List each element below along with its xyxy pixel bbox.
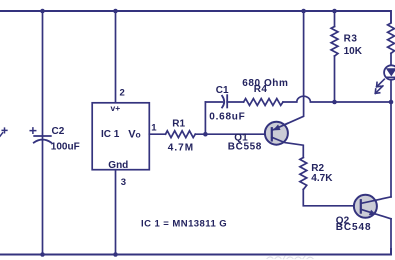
watermark fragment bottom	[267, 256, 313, 259]
svg-text:BC548: BC548	[336, 222, 372, 233]
transistor Q2 BC548	[354, 195, 391, 219]
svg-text:10K: 10K	[344, 46, 363, 57]
node LED column junction	[389, 100, 394, 105]
svg-text:BC558: BC558	[228, 142, 262, 153]
wire R5 to LED	[390, 53, 392, 65]
transistor Q1 BC558	[265, 122, 303, 158]
wire IC pin 3 column	[115, 170, 117, 255]
svg-text:v+: v+	[111, 103, 121, 113]
svg-text:R1: R1	[172, 118, 185, 129]
node R3 top junction	[332, 9, 337, 14]
resistor R3	[331, 27, 338, 57]
svg-text:R3: R3	[344, 34, 358, 45]
wire IC pin 1 to R1	[149, 133, 165, 135]
node pin3 bottom junction	[113, 252, 118, 257]
node C2 top junction	[40, 9, 45, 14]
svg-text:100uF: 100uF	[51, 142, 80, 153]
svg-text:IC 1 = MN13811 G: IC 1 = MN13811 G	[141, 219, 227, 230]
resistor R2	[300, 158, 307, 190]
svg-text:4.7M: 4.7M	[168, 142, 194, 153]
svg-text:C2: C2	[52, 126, 65, 137]
wire bottom ground rail	[0, 249, 391, 255]
resistor R1	[166, 131, 196, 138]
wire Q2 collector to LED column	[390, 102, 392, 197]
battery + fragment at left edge	[0, 128, 7, 136]
op-amp U1 IC1 box	[92, 103, 149, 170]
wire R4 to R3 bottom with hop over emitter column	[283, 96, 391, 102]
wire IC pin 2 column	[115, 11, 117, 103]
svg-text:4.7K: 4.7K	[311, 173, 333, 184]
resistor R5 top right	[388, 23, 395, 53]
svg-text:1: 1	[151, 123, 157, 134]
node R3 bottom junction	[332, 100, 337, 105]
svg-text:R4: R4	[254, 84, 268, 95]
node C2 bottom junction	[40, 252, 45, 257]
node pin2 top junction	[113, 9, 118, 14]
wire top V+ rail	[0, 11, 391, 22]
LED D1	[375, 65, 395, 93]
svg-text:C1: C1	[216, 85, 229, 96]
wire R1 to Q1 base	[195, 133, 271, 135]
wire riser junction to C1	[204, 102, 206, 134]
wire C2 column	[42, 11, 44, 255]
svg-text:IC 1: IC 1	[101, 129, 120, 140]
wire Q1 emitter column	[272, 11, 304, 130]
node junction R1/C1/Q1	[203, 132, 208, 137]
svg-text:0.68uF: 0.68uF	[209, 112, 245, 123]
svg-text:Gnd: Gnd	[108, 160, 128, 171]
wire Q2 emitter to ground rail	[390, 219, 392, 255]
svg-text:2: 2	[120, 88, 125, 99]
wire R3 bottom	[334, 56, 336, 102]
capacitor C2	[30, 128, 51, 143]
wire R3 column top	[334, 11, 336, 27]
svg-text:3: 3	[121, 177, 126, 188]
wire R2 to Q2 base	[303, 190, 361, 206]
node emitter column top junction	[301, 9, 306, 14]
resistor R4	[244, 99, 283, 106]
svg-text:Vo: Vo	[128, 129, 141, 141]
capacitor C1	[205, 95, 243, 107]
wire LED to junction	[390, 80, 392, 102]
